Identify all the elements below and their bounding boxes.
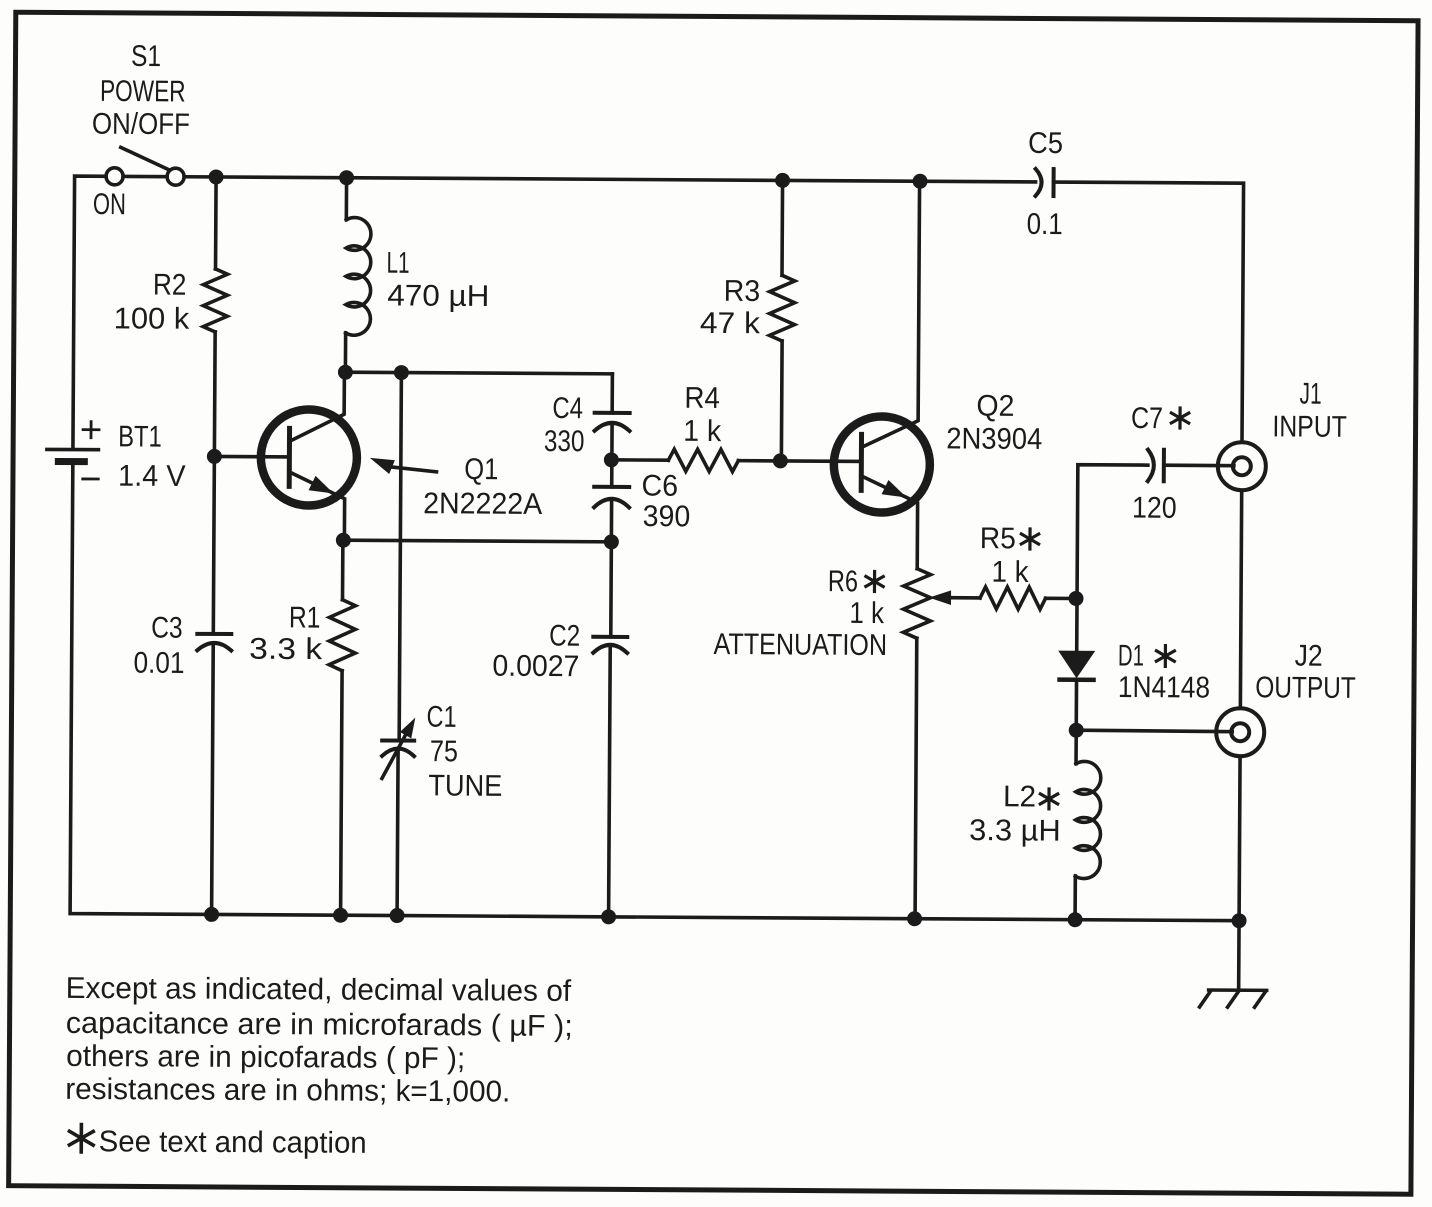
wire node to J2 bbox=[1076, 730, 1232, 731]
svg-text:390: 390 bbox=[643, 500, 691, 533]
svg-text:R2: R2 bbox=[153, 269, 187, 302]
capacitor C7 bbox=[1148, 450, 1164, 482]
svg-text:R5: R5 bbox=[980, 522, 1016, 555]
wire Q1 base bbox=[214, 455, 289, 459]
svg-text:1.4 V: 1.4 V bbox=[118, 460, 186, 493]
battery BT1 bbox=[47, 421, 99, 479]
wire collector node row bbox=[345, 372, 612, 374]
transistor Q1 bbox=[260, 372, 357, 541]
svg-text:3.3 k: 3.3 k bbox=[249, 633, 323, 666]
svg-text:3.3 µH: 3.3 µH bbox=[969, 814, 1061, 848]
svg-text:Q2: Q2 bbox=[976, 390, 1014, 423]
svg-text:0.01: 0.01 bbox=[133, 647, 184, 680]
svg-text:TUNE: TUNE bbox=[428, 769, 502, 802]
svg-text:C6: C6 bbox=[642, 470, 679, 503]
switch S1 bbox=[106, 147, 184, 185]
junction C6/C2 node bbox=[604, 534, 619, 549]
svg-text:C2: C2 bbox=[549, 619, 580, 652]
svg-text:Q1: Q1 bbox=[464, 453, 498, 486]
capacitor C1 variable bbox=[399, 373, 401, 741]
svg-text:INPUT: INPUT bbox=[1272, 410, 1347, 443]
wire top rail right + right column down to J1 bbox=[1052, 182, 1244, 442]
svg-text:C5: C5 bbox=[1028, 127, 1063, 160]
R5 asterisk bbox=[1021, 529, 1039, 549]
capacitor C4 bbox=[610, 374, 614, 413]
svg-text:1 k: 1 k bbox=[991, 556, 1029, 589]
svg-text:ON: ON bbox=[93, 188, 126, 221]
svg-text:0.1: 0.1 bbox=[1027, 208, 1063, 241]
ground bbox=[1200, 990, 1267, 1007]
D1 asterisk bbox=[1156, 646, 1174, 667]
junction rail R1 bbox=[333, 908, 348, 923]
svg-text:capacitance are in microfarads: capacitance are in microfarads ( µF ); bbox=[66, 1007, 573, 1043]
svg-text:470 µH: 470 µH bbox=[387, 279, 489, 313]
junction C4/C6/R4 bbox=[604, 452, 619, 467]
transistor Q2 bbox=[833, 181, 931, 569]
junction rail C2 bbox=[601, 909, 616, 924]
wire left rail top + corner to switch bbox=[73, 176, 106, 448]
junction emitter node bbox=[336, 533, 351, 548]
L2 asterisk bbox=[1040, 789, 1058, 809]
junction C1 branch bbox=[394, 365, 409, 380]
resistor R3 bbox=[780, 180, 784, 275]
potentiometer R6 bbox=[903, 569, 930, 639]
wire C7 branch up and right bbox=[1077, 465, 1148, 599]
wire J1 to J2 bbox=[1240, 490, 1241, 708]
junction rail L2 bbox=[1068, 912, 1083, 927]
jack J2 bbox=[1216, 708, 1264, 756]
wire emitter row bbox=[343, 540, 611, 542]
svg-text:L1: L1 bbox=[386, 247, 409, 280]
R6 asterisk bbox=[866, 571, 884, 591]
svg-text:R6: R6 bbox=[828, 565, 858, 598]
resistor R2 bbox=[214, 177, 218, 269]
wire C7 to J1 bbox=[1164, 463, 1234, 467]
diode D1 bbox=[1075, 599, 1079, 651]
svg-text:J1: J1 bbox=[1299, 378, 1321, 411]
C7 asterisk bbox=[1171, 408, 1189, 428]
svg-text:75: 75 bbox=[430, 735, 458, 768]
svg-text:OUTPUT: OUTPUT bbox=[1255, 671, 1356, 705]
svg-text:See text and caption: See text and caption bbox=[99, 1125, 367, 1160]
svg-text:1N4148: 1N4148 bbox=[1118, 671, 1210, 705]
junction rail C1 bbox=[390, 908, 405, 923]
svg-text:R4: R4 bbox=[684, 382, 720, 415]
junction top of R2 bbox=[209, 169, 224, 184]
annotation arrow to Q1 bbox=[370, 458, 437, 474]
svg-text:R1: R1 bbox=[289, 601, 321, 634]
svg-text:D1: D1 bbox=[1118, 639, 1144, 672]
svg-text:0.0027: 0.0027 bbox=[492, 650, 579, 684]
svg-text:L2: L2 bbox=[1003, 780, 1036, 813]
svg-text:BT1: BT1 bbox=[118, 420, 162, 453]
svg-text:ATTENUATION: ATTENUATION bbox=[713, 628, 887, 662]
junction R5/C7/D1 bbox=[1068, 591, 1083, 606]
svg-text:others are in picofarads ( pF: others are in picofarads ( pF ); bbox=[66, 1040, 465, 1075]
R6 wiper arrow bbox=[929, 590, 980, 605]
svg-text:C1: C1 bbox=[426, 701, 456, 734]
svg-text:resistances are in ohms; k=1,0: resistances are in ohms; k=1,000. bbox=[65, 1073, 510, 1109]
svg-text:1 k: 1 k bbox=[849, 597, 885, 630]
svg-text:J2: J2 bbox=[1295, 640, 1323, 673]
inductor L2 bbox=[1074, 730, 1078, 763]
svg-text:100 k: 100 k bbox=[114, 302, 191, 335]
junction L1 bottom bbox=[338, 365, 353, 380]
inductor L1 bbox=[345, 178, 349, 220]
svg-text:POWER: POWER bbox=[100, 75, 186, 109]
junction top of Q2 collector bbox=[913, 174, 928, 189]
svg-text:ON/OFF: ON/OFF bbox=[92, 108, 190, 142]
junction rail C3 bbox=[204, 907, 219, 922]
capacitor C2 bbox=[609, 542, 613, 637]
junction rail J2 column bbox=[1232, 913, 1247, 928]
junction R4/R3/Q2 base bbox=[773, 453, 788, 468]
svg-text:330: 330 bbox=[544, 425, 585, 458]
svg-text:R3: R3 bbox=[724, 275, 761, 308]
capacitor C3 bbox=[197, 634, 231, 651]
jack J1 bbox=[1218, 442, 1266, 490]
svg-text:C7: C7 bbox=[1131, 402, 1163, 435]
svg-text:2N3904: 2N3904 bbox=[946, 422, 1042, 456]
junction D1/L2/J2 bbox=[1069, 723, 1084, 738]
capacitor C5 bbox=[1035, 169, 1053, 196]
junction base/R2 column bbox=[207, 449, 222, 464]
svg-text:Except as indicated, decimal v: Except as indicated, decimal values of bbox=[66, 972, 572, 1008]
junction top of R3 bbox=[775, 173, 790, 188]
junction top of L1 bbox=[339, 170, 354, 185]
svg-text:S1: S1 bbox=[131, 40, 161, 73]
footnote asterisk bbox=[69, 1124, 93, 1152]
svg-text:47 k: 47 k bbox=[700, 307, 761, 340]
resistor R5 bbox=[980, 587, 1046, 609]
resistor R1 bbox=[341, 540, 345, 599]
svg-text:120: 120 bbox=[1132, 492, 1177, 525]
svg-text:C4: C4 bbox=[552, 392, 583, 425]
wire J2 down to ground bbox=[1239, 756, 1240, 990]
capacitor C6 bbox=[610, 460, 614, 487]
wire top rail bbox=[184, 177, 1035, 182]
svg-text:C3: C3 bbox=[151, 612, 183, 645]
svg-text:2N2222A: 2N2222A bbox=[423, 487, 542, 521]
resistor R4 bbox=[668, 449, 738, 471]
wire left rail bottom + bottom rail bbox=[70, 463, 1242, 921]
svg-text:1 k: 1 k bbox=[683, 415, 722, 448]
junction rail R6 bbox=[907, 911, 922, 926]
